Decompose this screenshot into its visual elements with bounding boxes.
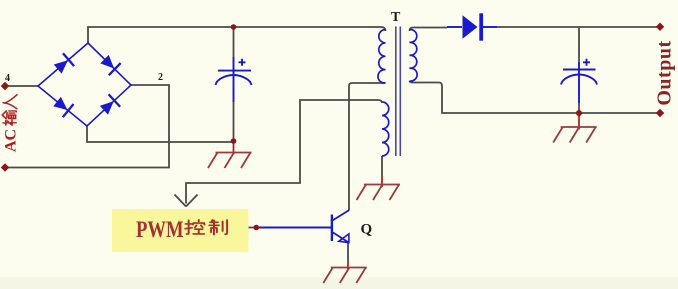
svg-text:Q: Q	[361, 222, 373, 238]
svg-text:Output: Output	[654, 40, 676, 105]
svg-text:T: T	[391, 10, 401, 25]
svg-text:AC: AC	[3, 129, 20, 152]
svg-text:PWM: PWM	[136, 217, 184, 242]
svg-text:4: 4	[5, 73, 10, 84]
svg-text:2: 2	[158, 72, 163, 83]
